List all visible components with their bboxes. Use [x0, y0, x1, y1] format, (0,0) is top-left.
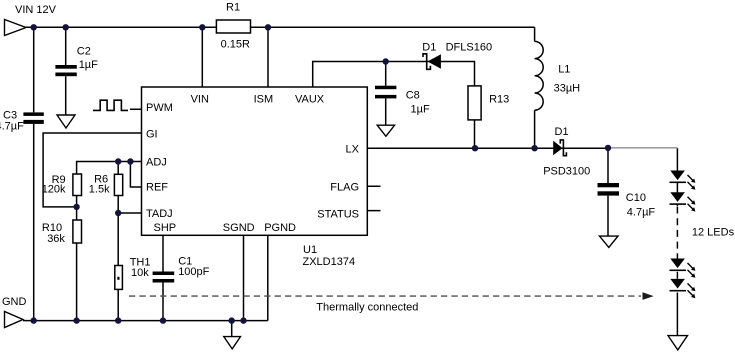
svg-text:C2: C2	[77, 46, 91, 58]
svg-text:36k: 36k	[47, 233, 65, 245]
svg-text:4.7µF: 4.7µF	[627, 207, 656, 219]
svg-text:STATUS: STATUS	[317, 209, 359, 221]
svg-text:GI: GI	[146, 128, 158, 140]
svg-text:GND: GND	[2, 296, 27, 308]
svg-text:VIN 12V: VIN 12V	[15, 4, 57, 16]
svg-text:1.5k: 1.5k	[89, 184, 110, 196]
svg-text:Thermally connected: Thermally connected	[316, 301, 418, 313]
svg-text:D1: D1	[422, 41, 436, 53]
svg-text:PSD3100: PSD3100	[543, 165, 590, 177]
svg-text:VAUX: VAUX	[295, 94, 325, 106]
svg-text:FLAG: FLAG	[330, 182, 359, 194]
svg-text:ZXLD1374: ZXLD1374	[303, 256, 356, 268]
svg-text:LX: LX	[346, 144, 360, 156]
svg-text:R13: R13	[489, 94, 509, 106]
svg-text:120k: 120k	[42, 184, 66, 196]
svg-text:TADJ: TADJ	[146, 208, 173, 220]
svg-text:100pF: 100pF	[178, 266, 209, 278]
svg-text:R1: R1	[226, 2, 240, 14]
svg-text:C10: C10	[626, 192, 646, 204]
svg-text:D1: D1	[555, 126, 569, 138]
svg-text:10k: 10k	[131, 267, 149, 279]
svg-text:PGND: PGND	[264, 222, 296, 234]
svg-text:ISM: ISM	[254, 94, 274, 106]
svg-text:REF: REF	[146, 182, 168, 194]
svg-text:C8: C8	[406, 90, 420, 102]
svg-text:ADJ: ADJ	[146, 157, 167, 169]
svg-text:PWM: PWM	[146, 102, 173, 114]
svg-text:DFLS160: DFLS160	[446, 41, 492, 53]
svg-text:U1: U1	[303, 244, 317, 256]
svg-text:VIN: VIN	[191, 94, 209, 106]
svg-text:1µF: 1µF	[79, 59, 98, 71]
svg-text:4.7µF: 4.7µF	[0, 121, 24, 133]
svg-text:12 LEDs: 12 LEDs	[692, 226, 735, 238]
svg-text:0.15R: 0.15R	[221, 38, 250, 50]
svg-text:SHP: SHP	[154, 222, 177, 234]
svg-text:33µH: 33µH	[554, 83, 581, 95]
svg-text:SGND: SGND	[223, 222, 255, 234]
svg-text:1µF: 1µF	[411, 104, 430, 116]
svg-text:L1: L1	[558, 64, 570, 76]
